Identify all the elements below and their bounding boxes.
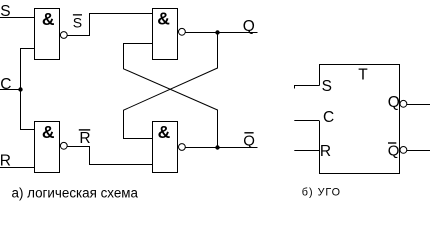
wire C vertical bus to both gates: [21, 49, 35, 130]
wire S input: [0, 17, 35, 19]
gate D1.4 inversion bubble: [179, 144, 186, 151]
svg-text:&: &: [42, 9, 55, 29]
svg-text:Q: Q: [388, 142, 400, 159]
gate D1.1 inversion bubble: [60, 32, 67, 39]
wire D1.3 input2 cross-coupled to Q-bar: [124, 44, 218, 148]
svg-text:S: S: [0, 3, 10, 20]
label S-bar overbar: [73, 14, 82, 15]
gate D1.4 NAND body: [153, 122, 178, 173]
svg-text:C: C: [323, 109, 334, 126]
svg-text:S: S: [73, 15, 82, 31]
svg-text:T: T: [358, 66, 368, 83]
label Q-bar overbar: [244, 132, 253, 133]
svg-text:R: R: [0, 153, 11, 170]
svg-text:R: R: [79, 130, 90, 147]
wire S input stub with tick: [295, 86, 320, 89]
svg-text:Q: Q: [243, 133, 255, 150]
wire Q-bar output: [185, 147, 257, 149]
svg-text:б) УГО: б) УГО: [302, 187, 341, 199]
wire Q-bar output stub: [407, 150, 430, 152]
svg-text:S: S: [322, 78, 332, 95]
trigger DD1 box outline (left edge gap between S and C): [320, 65, 400, 174]
wire R input: [0, 167, 35, 169]
gate D1.2 inversion bubble: [60, 142, 67, 149]
wire C input stub: [294, 120, 319, 122]
svg-text:&: &: [157, 8, 170, 28]
wire S-bar from D1.1 to D1.3: [67, 14, 152, 36]
wire R input stub: [294, 150, 319, 152]
node C junction: [18, 87, 22, 91]
wire Q output: [185, 32, 257, 34]
svg-text:Q: Q: [243, 18, 255, 35]
node Q junction: [215, 30, 219, 34]
wire C input: [0, 89, 21, 91]
svg-text:&: &: [158, 122, 171, 142]
svg-text:R: R: [320, 143, 331, 160]
label Q-bar overbar (trigger): [388, 142, 396, 143]
svg-text:а) логическая схема: а) логическая схема: [12, 186, 139, 201]
gate D1.3 NAND body: [153, 9, 178, 60]
wire Q cross-coupled to D1.4 input1: [124, 33, 218, 139]
wire R-bar from D1.2 to D1.4: [67, 147, 152, 165]
gate D1.1 NAND body: [35, 9, 60, 60]
svg-text:C: C: [0, 76, 11, 93]
svg-text:&: &: [42, 122, 55, 142]
wire Q output stub: [407, 104, 430, 106]
svg-text:Q: Q: [388, 94, 400, 111]
gate D1.3 inversion bubble: [179, 28, 186, 35]
label R-bar overbar: [79, 129, 90, 130]
node Q-bar junction: [215, 145, 219, 149]
gate D1.2 NAND body: [35, 122, 60, 173]
trigger Q inversion bubble: [400, 100, 407, 107]
trigger Q-bar inversion bubble: [400, 147, 407, 154]
